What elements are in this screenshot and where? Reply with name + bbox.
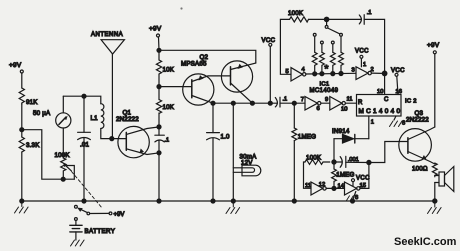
wire gate10 to IC2 R	[345, 102, 356, 104]
svg-text:IC1: IC1	[320, 82, 330, 88]
node lamp rail	[231, 199, 235, 203]
svg-text:MC14040: MC14040	[359, 108, 403, 115]
svg-text:10K: 10K	[163, 67, 175, 74]
node top rail	[157, 48, 161, 52]
svg-text:+9V: +9V	[114, 212, 125, 218]
resistor bank R* 2	[320, 41, 325, 74]
lamp 30mA 12V	[233, 103, 260, 201]
svg-text:ANTENNA: ANTENNA	[91, 32, 123, 38]
svg-text:.1: .1	[367, 10, 372, 16]
+9V terminal right	[427, 42, 440, 127]
speaker	[435, 167, 454, 202]
svg-text:10: 10	[377, 89, 383, 95]
antenna	[91, 32, 124, 139]
diode IN914	[332, 128, 369, 162]
IC2 MC14040	[357, 89, 417, 116]
node Q1 emitter	[157, 151, 161, 155]
IC1 labels	[310, 82, 339, 95]
signal row wire	[213, 102, 277, 104]
node lamp	[231, 101, 235, 105]
capacitor .1 (Q1)	[155, 127, 169, 153]
top rail to Q2	[159, 50, 256, 63]
pot wiper bracket	[67, 166, 74, 180]
transistor Q2 darlington MPSA65	[181, 54, 256, 105]
node R2 tap	[320, 72, 324, 76]
svg-text:BATTERY: BATTERY	[85, 228, 116, 235]
node oscillator output	[382, 71, 387, 76]
resistor 3.3K	[19, 130, 40, 152]
pin 8 ground IC2	[390, 116, 406, 127]
inverter gate 3-2	[352, 67, 374, 80]
svg-text:9: 9	[325, 97, 328, 103]
node VCC feed	[268, 101, 272, 105]
wire 91K to junction	[21, 104, 23, 130]
capacitor .01	[78, 96, 91, 201]
svg-text:1: 1	[371, 120, 374, 126]
LEFT SECTION	[180, 7, 182, 9]
node .01 rail	[82, 199, 86, 203]
svg-text:1: 1	[363, 62, 366, 68]
svg-text:+9V: +9V	[427, 42, 440, 49]
svg-text:8: 8	[402, 120, 405, 126]
node 1MEG rail	[292, 199, 296, 203]
svg-text:3.3K: 3.3K	[26, 142, 40, 149]
svg-text:14: 14	[338, 184, 345, 190]
node A	[332, 160, 336, 164]
wire node B to Q3 base	[369, 142, 408, 163]
wire gate15 output to node B	[360, 163, 369, 189]
node 1.0 rail	[211, 199, 215, 203]
node Q2 collector	[250, 101, 254, 105]
resistor 91K	[19, 88, 38, 106]
bottom ground rail	[22, 200, 435, 202]
node 1MEG bottom	[332, 186, 336, 190]
svg-text:SeekIC.com: SeekIC.com	[394, 236, 457, 248]
svg-text:16: 16	[396, 89, 402, 95]
svg-text:2N2222: 2N2222	[406, 117, 429, 124]
wire gate12 to gate14	[326, 187, 344, 189]
VCC terminal mid	[262, 38, 276, 103]
wire tank top	[63, 96, 101, 104]
transistor Q3 2N2222	[399, 110, 435, 164]
svg-text:6: 6	[317, 106, 320, 112]
inductor L1	[91, 104, 104, 129]
node R3 tap	[331, 72, 335, 76]
resistor 100K top	[288, 10, 309, 22]
transistor Q1 2N2222	[116, 110, 159, 158]
ground gate D pin 8	[347, 192, 359, 204]
wire junction to pot bottom	[22, 130, 75, 180]
resistor 10K lower	[156, 87, 174, 114]
wire feedback left vertical	[280, 19, 291, 74]
meter top lead	[62, 96, 64, 113]
wire gate6 to gate9	[321, 102, 330, 104]
svg-text:100K: 100K	[288, 10, 304, 17]
meter bottom lead	[62, 128, 64, 158]
svg-text:1.0: 1.0	[221, 134, 231, 141]
svg-text:+9V: +9V	[149, 26, 162, 33]
inverter gate 9-10	[325, 97, 347, 113]
svg-text:100K: 100K	[55, 152, 71, 159]
node speaker rail	[433, 199, 437, 203]
VCC terminal gate1	[355, 49, 369, 69]
svg-text:10K: 10K	[163, 104, 175, 111]
svg-text:C: C	[384, 97, 389, 103]
potentiometer 100K	[55, 152, 71, 179]
wire 10K lower to Q1 collector node	[158, 113, 160, 127]
ground left	[14, 201, 28, 213]
pin 1 lead	[369, 116, 374, 139]
svg-text:MPSA65: MPSA65	[181, 61, 207, 68]
svg-text:1MEG: 1MEG	[336, 172, 354, 179]
capacitor .1 top	[359, 10, 371, 24]
wire node to Q2a base	[159, 86, 192, 88]
wire gate2 output	[371, 72, 384, 74]
svg-text:10: 10	[341, 107, 347, 113]
wire Q1 emitter to rail	[158, 153, 160, 201]
node junction 91K/3.3K/pot-return	[20, 128, 24, 132]
capacitor 1.0	[207, 103, 230, 201]
wire cap to node vertical	[364, 19, 384, 94]
svg-text:MC14049: MC14049	[310, 88, 339, 94]
node R4 tap	[339, 72, 343, 76]
svg-text:VCC: VCC	[391, 68, 405, 74]
+9V terminal left	[9, 62, 23, 73]
VCC terminal pin16	[391, 68, 405, 95]
resistor 100ohm	[412, 163, 437, 177]
svg-text:5: 5	[286, 69, 289, 75]
resistor bank R* 4	[339, 33, 344, 74]
svg-text:VCC: VCC	[356, 176, 370, 182]
wire 3.3K to rail	[21, 152, 23, 201]
svg-text:8: 8	[355, 195, 358, 201]
+9V terminal mid	[149, 26, 162, 38]
svg-text:50 µA: 50 µA	[33, 110, 51, 117]
svg-text:*: *	[324, 63, 328, 75]
resistor 1MEG (osc)	[332, 162, 355, 188]
node rail left end	[20, 199, 24, 203]
svg-text:11: 11	[347, 97, 353, 103]
node rail (Q1 column)	[157, 199, 161, 203]
svg-text:2: 2	[371, 67, 374, 73]
inverter gate 5-4	[286, 67, 306, 81]
svg-text:IC 2: IC 2	[405, 98, 417, 104]
capacitor .001	[334, 156, 369, 167]
svg-text:100Ω: 100Ω	[412, 166, 428, 173]
svg-text:11: 11	[305, 183, 311, 189]
node antenna/L1/base	[110, 137, 114, 141]
svg-text:+9V: +9V	[9, 62, 22, 69]
svg-text:100K: 100K	[306, 155, 322, 162]
resistor 1MEG (input bias)	[292, 103, 316, 201]
meter M1 50uA	[33, 110, 71, 128]
svg-text:VCC: VCC	[262, 38, 276, 44]
switch SW1 (power)	[75, 205, 125, 218]
wire left column top	[21, 73, 23, 88]
wire 100K to switch node	[309, 18, 362, 20]
svg-text:.1: .1	[283, 97, 288, 103]
ground mid (lamp)	[226, 201, 240, 214]
svg-text:.001: .001	[348, 157, 359, 163]
svg-text:R: R	[358, 100, 363, 106]
node .01 top	[82, 94, 86, 98]
resistor bank R* 1	[312, 33, 317, 74]
inverter gate 11-12	[311, 182, 326, 195]
node B	[367, 160, 371, 164]
battery B1	[70, 218, 115, 240]
svg-text:3: 3	[352, 68, 355, 74]
node Q1 collector	[157, 125, 161, 129]
switch rotary pole	[325, 19, 339, 33]
node Q1 collector bias / Q2 base	[157, 85, 161, 89]
svg-text:VCC: VCC	[355, 49, 369, 55]
wire +9V mid down	[158, 37, 161, 50]
inverter gate 14-15	[345, 182, 366, 195]
wire gate4 output row	[306, 72, 356, 75]
resistor 100K (osc)	[305, 155, 330, 165]
capacitor .1 coupling	[275, 97, 294, 108]
svg-text:91K: 91K	[26, 99, 38, 106]
svg-text:.1: .1	[165, 138, 170, 144]
wire to Q1 base	[112, 138, 127, 140]
pot wiper arrow	[63, 163, 71, 171]
wire 10K to node	[158, 74, 160, 87]
node switch	[324, 17, 328, 21]
svg-text:12: 12	[319, 182, 325, 188]
node R1 tap	[313, 72, 317, 76]
resistor 10K upper	[156, 50, 174, 74]
inverter gate 7-6	[294, 97, 321, 113]
svg-text:7: 7	[301, 97, 304, 103]
svg-text:1MEG: 1MEG	[298, 134, 316, 141]
ground right	[428, 201, 442, 214]
wire 100K input bracket	[304, 162, 312, 188]
node 1.0 cap	[211, 101, 215, 105]
svg-text:.01: .01	[80, 142, 90, 149]
node pot bottom	[61, 177, 65, 181]
svg-text:2N2222: 2N2222	[116, 116, 139, 123]
svg-text:IN914: IN914	[332, 128, 350, 135]
wire L1 bottom	[101, 129, 112, 139]
resistor bank R* 3	[330, 41, 335, 74]
VCC terminal gate D	[352, 176, 371, 187]
dashed mechanical link to switch	[72, 172, 103, 209]
svg-text:L1: L1	[91, 115, 99, 122]
node audio input	[292, 101, 296, 105]
ground battery	[71, 240, 85, 246]
